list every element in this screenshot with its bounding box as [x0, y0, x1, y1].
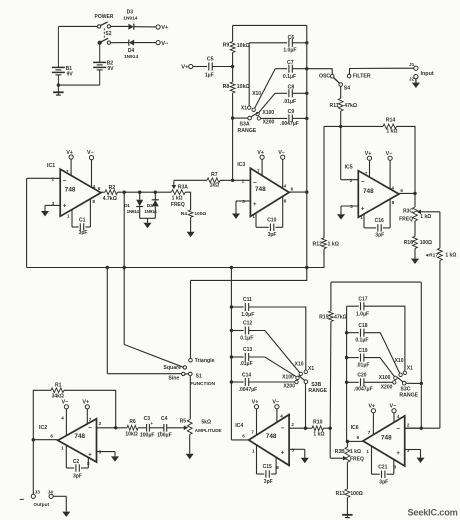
resistor R12 1k — [322, 238, 327, 249]
svg-text:D4: D4 — [128, 48, 135, 54]
label C17 value — [356, 311, 369, 317]
resistor R16 100ohm — [413, 236, 418, 248]
label C20 — [357, 373, 366, 379]
label R3B FREQ — [350, 457, 364, 463]
svg-text:R4: R4 — [181, 211, 187, 217]
terminal IC6 V- — [392, 409, 396, 413]
ground IC2 pin 3 — [111, 456, 119, 461]
svg-text:FREQ: FREQ — [350, 457, 364, 463]
switch S3B contact X10 — [299, 372, 302, 375]
switch S2 gang link (dashed) — [103, 28, 105, 38]
svg-text:7: 7 — [66, 169, 69, 174]
junction square-wave tap — [123, 191, 126, 194]
svg-text:1: 1 — [252, 449, 255, 454]
terminal V+ bias — [189, 64, 193, 68]
capacitor C15 3pF — [257, 445, 277, 478]
label R3B — [335, 449, 345, 455]
junction node X — [305, 266, 308, 269]
IC4 pin 7 — [251, 429, 254, 434]
terminal IC4 V- — [275, 405, 279, 409]
svg-text:Triangle: Triangle — [195, 358, 215, 364]
IC6 pin 2 — [407, 422, 410, 427]
svg-text:V−: V− — [278, 150, 285, 156]
ground J4 — [62, 512, 70, 517]
potentiometer R3B 1k FREQ — [330, 447, 350, 462]
label C10 — [267, 217, 276, 223]
wire diode bottoms — [140, 217, 156, 219]
capacitor C11 — [245, 303, 248, 311]
svg-text:X200: X200 — [283, 384, 295, 390]
capacitor C14 — [245, 378, 248, 386]
svg-text:+: + — [150, 421, 153, 426]
label R16 value — [420, 240, 432, 246]
svg-text:+: + — [361, 206, 365, 212]
label IC3 V- — [278, 150, 285, 156]
label D3 — [127, 10, 134, 16]
svg-text:Input: Input — [421, 71, 434, 77]
svg-text:S2: S2 — [105, 31, 111, 37]
diode D1 1N914 — [136, 192, 143, 218]
svg-text:S3A: S3A — [240, 122, 250, 128]
jack J3 tip mark — [20, 498, 24, 500]
label S3B X200 — [283, 384, 295, 390]
terminal IC2 V- — [64, 405, 68, 409]
label IC4 V+ — [252, 400, 259, 406]
svg-text:6: 6 — [242, 433, 245, 438]
svg-text:V−: V− — [87, 150, 94, 156]
wire to R10 — [306, 427, 313, 429]
wire square tap lower — [123, 268, 125, 345]
wire R3A to R4 — [185, 192, 190, 210]
IC6 pin 6 — [357, 435, 360, 440]
svg-text:3: 3 — [407, 448, 410, 453]
switch S3C wiper — [397, 377, 420, 385]
wire X10 contact diagonal to C7 — [255, 69, 276, 109]
wire to Sine contact — [107, 373, 181, 375]
wire right bus top segment — [306, 25, 308, 42]
switch S3B contact X100 — [296, 376, 299, 379]
svg-text:1: 1 — [67, 214, 70, 219]
IC3 pin 8 — [284, 199, 287, 204]
label S3C — [400, 386, 410, 392]
op-amp IC3 748 — [236, 159, 289, 216]
IC5 pin 2 — [350, 178, 353, 183]
IC1 pin 6 — [98, 186, 101, 191]
op-amp IC2 748 — [58, 409, 116, 462]
switch S2 pole 1 — [97, 22, 110, 28]
resistor R8 10k — [230, 82, 235, 93]
label R8 — [223, 84, 230, 90]
svg-text:OSC: OSC — [319, 74, 330, 80]
svg-text:C14: C14 — [242, 372, 251, 378]
svg-text:J3: J3 — [35, 489, 41, 495]
label D4 value — [124, 54, 138, 60]
wire R3C to R16 — [414, 221, 416, 236]
jack J3 output tip — [31, 494, 35, 498]
wire R6 to C3 — [138, 427, 146, 429]
wire X1 contact up to C6 — [248, 43, 250, 106]
svg-text:X1: X1 — [407, 366, 413, 372]
svg-text:X200: X200 — [263, 119, 275, 125]
svg-text:−: − — [281, 425, 285, 432]
label C7 — [287, 60, 294, 66]
wire sine drop — [106, 268, 108, 374]
IC2 pin 7 — [89, 417, 92, 422]
wire S3C top edge — [331, 281, 421, 283]
wire R1 right leg — [64, 390, 116, 428]
switch S3B wiper — [299, 375, 308, 383]
ground IC1 pin 3 — [41, 211, 49, 216]
IC4 pin 3 — [291, 448, 294, 453]
svg-text:8: 8 — [284, 199, 287, 204]
IC4 pin 1 — [252, 449, 255, 454]
label B2 — [107, 61, 114, 67]
svg-text:1 kΩ: 1 kΩ — [420, 214, 431, 220]
label D3 value — [123, 16, 137, 22]
label R3C FREQ — [399, 216, 413, 222]
wire IC6 pin2 row to R17 bus — [405, 427, 440, 429]
junction C20 left — [345, 381, 348, 384]
label C18 value — [355, 338, 368, 344]
label R10 value — [313, 432, 324, 438]
wire C20 to X200 — [364, 381, 393, 383]
IC6 pin 1 — [366, 449, 369, 454]
wire R14 to IC5 output — [397, 126, 416, 193]
label R13 value — [350, 491, 362, 497]
junction R1 R6 IC2 pin2 — [114, 426, 117, 429]
svg-text:6: 6 — [98, 186, 101, 191]
wire R11 to node — [340, 111, 342, 126]
label S3C X100 — [379, 375, 391, 381]
svg-text:1 kΩ: 1 kΩ — [313, 432, 324, 438]
wire right bus to IC3 output — [306, 118, 308, 192]
wire to R6 — [116, 427, 127, 429]
label IC4 748 — [266, 433, 277, 440]
wire R3C wiper bus down to R17 — [439, 212, 441, 248]
svg-text:D3: D3 — [127, 10, 134, 16]
svg-text:V+: V+ — [82, 400, 89, 406]
svg-text:2: 2 — [242, 178, 245, 183]
svg-text:1: 1 — [360, 215, 363, 220]
svg-text:3pF: 3pF — [375, 233, 384, 239]
ground IC5 pin 3 — [337, 214, 345, 219]
label C8 value — [283, 99, 296, 105]
svg-text:R3B: R3B — [335, 449, 345, 455]
svg-text:V+: V+ — [66, 150, 73, 156]
label R13 — [336, 491, 345, 497]
label S3A RANGE — [238, 128, 257, 134]
potentiometer R3C 1k FREQ — [413, 207, 440, 221]
label X100 — [262, 110, 274, 116]
label X1 — [241, 106, 247, 112]
svg-text:1 kΩ: 1 kΩ — [445, 252, 456, 258]
label V- — [161, 41, 169, 47]
svg-text:S3C: S3C — [400, 386, 410, 392]
label B1 — [66, 66, 73, 72]
wire to C13 — [231, 356, 243, 358]
wire R15 bottom to R10 node — [329, 322, 332, 429]
label J2 — [409, 77, 415, 83]
svg-text:100Ω: 100Ω — [420, 240, 432, 246]
svg-text:1μF: 1μF — [205, 73, 214, 79]
svg-text:3: 3 — [291, 448, 294, 453]
svg-text:RANGE: RANGE — [399, 393, 418, 399]
label IC6 V- — [390, 404, 397, 410]
switch S3C contact X10 — [399, 373, 402, 376]
svg-text:R14: R14 — [386, 117, 396, 123]
label R3C value — [420, 214, 431, 220]
svg-text:1 kΩ: 1 kΩ — [350, 449, 361, 455]
svg-text:748: 748 — [363, 188, 374, 195]
label D1 value — [127, 209, 140, 214]
label R3C — [403, 209, 413, 215]
svg-text:6: 6 — [50, 433, 53, 438]
label S1 — [196, 374, 202, 380]
svg-text:R1: R1 — [55, 383, 62, 389]
IC5 pin 1 — [360, 215, 363, 220]
svg-text:.01μF: .01μF — [356, 362, 369, 368]
IC3 pin 6 — [291, 187, 294, 192]
label C7 value — [283, 74, 296, 80]
label IC3 748 — [255, 186, 266, 193]
label R12 value — [328, 241, 339, 247]
svg-text:AMPLITUDE: AMPLITUDE — [195, 428, 222, 433]
label C19 — [358, 348, 367, 354]
label C11 value — [241, 312, 254, 318]
wire IC2 output left — [33, 439, 58, 441]
svg-text:R8: R8 — [223, 84, 230, 90]
svg-text:9V: 9V — [67, 72, 74, 78]
svg-text:3: 3 — [242, 199, 245, 204]
wire C11 to S3B X1 contact — [249, 307, 306, 370]
label R11 value — [344, 103, 357, 109]
svg-text:.0047μF: .0047μF — [239, 387, 258, 393]
IC6 pin 8 — [394, 464, 397, 469]
switch S4 contact OSC — [330, 74, 334, 78]
svg-text:V+: V+ — [252, 400, 259, 406]
ground R13 — [342, 515, 352, 518]
switch S4 contact FILTER — [347, 74, 351, 78]
wire C18 diagonal to X10 — [364, 333, 400, 373]
IC4 minus — [281, 425, 285, 432]
svg-text:FILTER: FILTER — [353, 73, 371, 79]
svg-text:100Ω: 100Ω — [350, 491, 362, 497]
junction IC6 output R3B top — [346, 440, 349, 443]
capacitor C13 — [245, 353, 248, 361]
capacitor C19 — [361, 354, 364, 362]
wire to C19 — [347, 357, 359, 359]
switch S3A contact X100 — [256, 112, 259, 115]
label R1 value — [52, 393, 64, 399]
resistor R13 100ohm — [345, 489, 350, 498]
label C3 value — [140, 433, 154, 439]
wire to C14 — [231, 381, 243, 383]
label Output — [33, 502, 49, 508]
svg-text:IC1: IC1 — [47, 163, 55, 169]
wire to C20 — [347, 381, 359, 383]
wire R7 to IC3 pin 2 — [220, 179, 250, 181]
svg-text:.0047μF: .0047μF — [280, 121, 299, 127]
label D2 value — [144, 209, 157, 214]
svg-text:V−: V− — [386, 151, 393, 157]
label C2 — [73, 459, 80, 465]
svg-text:V−: V− — [272, 400, 279, 406]
label POWER — [95, 14, 114, 20]
IC5 plus — [361, 206, 365, 212]
svg-text:+: + — [396, 451, 400, 457]
label R4 value — [194, 211, 206, 217]
label Square — [163, 365, 181, 371]
svg-text:2: 2 — [407, 422, 410, 427]
wire X200 contact to C9 — [261, 117, 288, 119]
wire IC5 output — [399, 192, 415, 194]
junction C14 left — [230, 380, 233, 383]
wire top box top edge — [233, 24, 307, 26]
svg-text:1.0μF: 1.0μF — [241, 312, 254, 318]
svg-text:+: + — [63, 203, 67, 209]
svg-text:IC2: IC2 — [39, 425, 47, 431]
svg-text:3: 3 — [350, 204, 353, 209]
svg-text:Sine: Sine — [168, 375, 179, 381]
label R5 value — [201, 420, 211, 426]
svg-text:X10: X10 — [395, 358, 404, 364]
svg-text:2: 2 — [99, 421, 102, 426]
svg-text:X10: X10 — [252, 91, 261, 97]
junction bias node R8 R9 — [231, 65, 234, 68]
wire to Triangle contact — [190, 280, 192, 358]
wire R2 to R3A — [118, 191, 172, 193]
svg-text:3: 3 — [52, 201, 55, 206]
svg-text:748: 748 — [74, 433, 85, 440]
label R15 — [319, 315, 329, 321]
IC1 pin 1 — [67, 214, 70, 219]
label IC3 — [237, 162, 245, 168]
svg-text:6: 6 — [357, 435, 360, 440]
IC4 plus — [281, 451, 285, 457]
wire R12 bus upper — [323, 126, 325, 237]
svg-text:R15: R15 — [319, 315, 329, 321]
svg-text:4: 4 — [391, 186, 394, 191]
terminal IC1 V- — [89, 156, 93, 160]
svg-text:1kΩ: 1kΩ — [210, 183, 220, 189]
label R3B value — [350, 449, 361, 455]
svg-text:10kΩ: 10kΩ — [125, 432, 137, 438]
junction S3A wiper tap — [231, 116, 234, 119]
label X10 — [252, 91, 261, 97]
label C13 — [243, 347, 252, 353]
label IC2 748 — [74, 433, 85, 440]
label C15 value — [264, 479, 273, 485]
label R16 — [404, 240, 413, 246]
IC1 pin 3 — [52, 201, 55, 206]
junction S3C wiper bus — [420, 382, 423, 385]
label R5 — [180, 418, 187, 424]
capacitor C7 0.1uF — [289, 65, 292, 73]
label IC4 — [235, 423, 243, 429]
wire R16 to ground — [414, 248, 416, 258]
label R3A FREQ — [171, 202, 185, 208]
resistor R4 100ohm — [188, 210, 193, 217]
label IC4 V- — [272, 400, 279, 406]
svg-text:.01μF: .01μF — [240, 361, 253, 367]
label S3B X1 — [308, 366, 314, 372]
svg-text:100μF: 100μF — [140, 433, 154, 439]
label B1 value — [67, 72, 74, 78]
switch S1 contact Square — [183, 366, 186, 369]
svg-text:C7: C7 — [287, 60, 294, 66]
capacitor C16 3pF — [364, 199, 390, 232]
label IC5 748 — [363, 188, 374, 195]
switch S3A wiper — [233, 113, 259, 120]
svg-text:8: 8 — [392, 200, 395, 205]
wire IC6 output to R3B — [347, 440, 363, 442]
label S3C X1 — [407, 366, 413, 372]
capacitor C2 3pF — [66, 445, 88, 472]
wire IC3 output to right bus — [289, 191, 307, 193]
switch S3C contact X100 — [394, 376, 397, 379]
IC2 pin 2 — [99, 421, 102, 426]
label AMPLITUDE — [195, 428, 222, 433]
svg-text:RANGE: RANGE — [238, 128, 257, 134]
wire S3C right feed upper — [420, 282, 422, 383]
IC3 pin 3 — [242, 199, 245, 204]
wire S3C feed to IC6 pin2 row — [420, 383, 422, 428]
wire to C11 — [231, 306, 243, 308]
svg-text:J1: J1 — [409, 62, 415, 68]
svg-text:X100: X100 — [282, 374, 294, 380]
wire output down to J3 — [32, 440, 34, 495]
label R2 — [109, 185, 116, 191]
svg-text:−: − — [88, 424, 92, 431]
svg-text:X100: X100 — [379, 375, 391, 381]
label C5 value — [205, 73, 214, 79]
jack J4 output sleeve — [49, 494, 53, 498]
svg-text:4: 4 — [284, 183, 287, 188]
junction C9 right bus — [305, 117, 308, 120]
ground R4 — [187, 232, 195, 237]
label C6 value — [283, 48, 296, 54]
IC1 pin 8 — [92, 199, 95, 204]
svg-text:V+: V+ — [257, 150, 264, 156]
svg-text:0.1μF: 0.1μF — [355, 338, 368, 344]
potentiometer R5 5k AMPLITUDE wiper — [167, 426, 189, 431]
svg-text:◄R17: ◄R17 — [424, 252, 438, 258]
IC1 pin 2 — [52, 176, 55, 181]
svg-text:3: 3 — [99, 450, 102, 455]
op-amp IC1 748 — [27, 159, 101, 216]
svg-text:Output: Output — [33, 502, 49, 508]
svg-text:FREQ: FREQ — [171, 202, 185, 208]
IC2 pin 4 — [61, 415, 64, 420]
switch S3C contact X1 — [403, 371, 406, 374]
label C14 value — [239, 387, 258, 393]
wire harness horizontal — [27, 267, 324, 269]
svg-text:POWER: POWER — [95, 14, 114, 20]
svg-text:C11: C11 — [243, 297, 252, 303]
label R3A value — [172, 196, 183, 202]
svg-text:9V: 9V — [107, 66, 114, 72]
switch S3A contact X200 — [257, 117, 260, 120]
capacitor C17 — [361, 302, 364, 310]
label IC2 V- — [62, 400, 69, 406]
svg-text:−: − — [361, 179, 365, 186]
svg-text:IC4: IC4 — [235, 423, 243, 429]
svg-text:IC6: IC6 — [351, 425, 359, 431]
IC5 minus — [361, 179, 365, 186]
terminal IC5 V- — [388, 156, 392, 160]
wire to C8 left plate — [275, 92, 287, 94]
svg-text:IC5: IC5 — [345, 164, 353, 170]
